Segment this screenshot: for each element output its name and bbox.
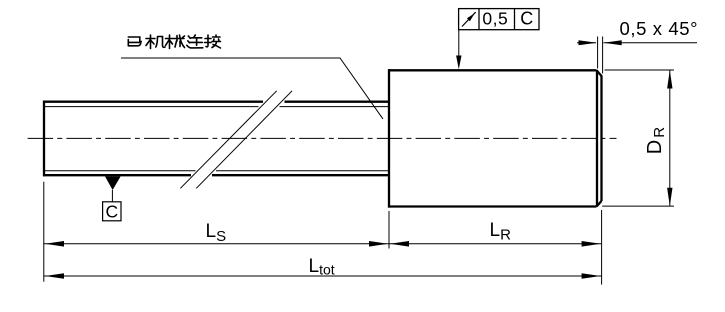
dimension L_R (389, 243, 602, 245)
extension line left (at shaft left end) (43, 182, 45, 282)
chamfer dimension 0,5 x 45 deg (577, 37, 697, 74)
shaft S (left slender rod outline) (43, 101, 390, 177)
leader line (mechanical joint label) (121, 58, 383, 119)
hub R (right cylinder outline with chamfered end) (388, 69, 602, 207)
shaft S inner thin edge lines (45, 107, 388, 171)
extension line right (at hub end) (601, 210, 603, 285)
char 连 (187, 35, 203, 48)
dimension L_tot (44, 275, 602, 277)
svg-text:C: C (520, 9, 533, 29)
break lines (shaft shortened) (180, 91, 292, 189)
svg-text:C: C (105, 202, 118, 222)
char 已 (128, 37, 141, 46)
char 械 (166, 35, 185, 49)
leader arrow from frame to hub (456, 30, 461, 70)
char 机 (146, 35, 165, 49)
svg-text:0,5: 0,5 (482, 8, 508, 28)
label 已机械连接 (drawn strokes) (128, 35, 220, 49)
feature control frame (runout 0,5 C) (459, 9, 539, 30)
extension line mid (at shaft/hub junction) (388, 211, 390, 249)
dimension D_R (vertical, right) (602, 70, 674, 206)
runout symbol (slanted arrow) (462, 12, 476, 26)
centerline (shaft axis, dash-dot) (28, 137, 617, 139)
char 接 (205, 35, 221, 48)
datum symbol C (triangle + box) (105, 176, 121, 190)
svg-text:0,5 x 45°: 0,5 x 45° (620, 18, 699, 39)
dimension L_S (44, 243, 389, 245)
label D_R (rotated) (644, 127, 668, 154)
